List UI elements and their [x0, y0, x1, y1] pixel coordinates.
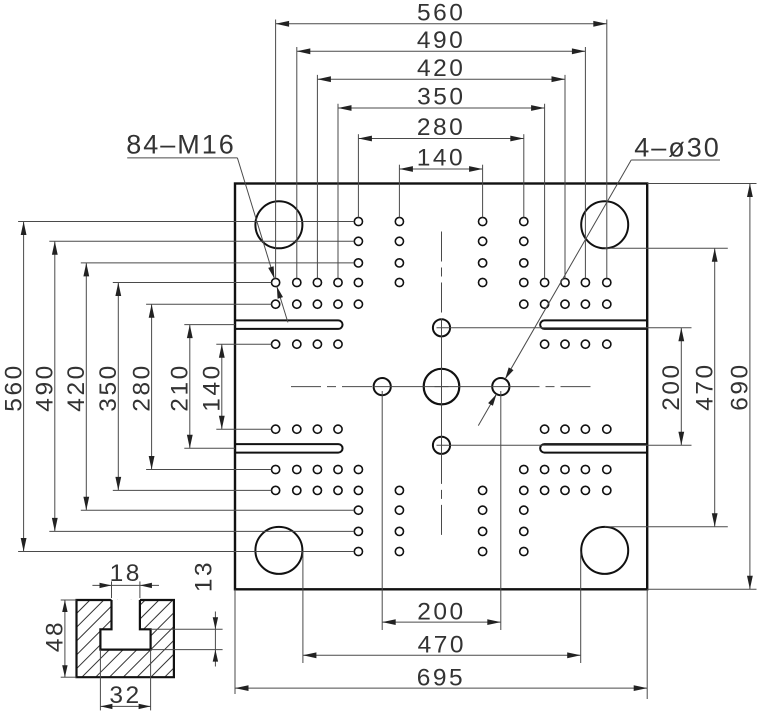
- svg-text:200: 200: [658, 362, 685, 410]
- svg-text:695: 695: [417, 665, 465, 692]
- svg-text:200: 200: [417, 599, 465, 626]
- svg-text:490: 490: [32, 363, 59, 411]
- svg-text:350: 350: [95, 363, 122, 411]
- svg-text:420: 420: [417, 55, 465, 82]
- svg-text:350: 350: [417, 84, 465, 111]
- svg-text:13: 13: [191, 560, 218, 592]
- svg-text:420: 420: [63, 363, 90, 411]
- svg-text:140: 140: [199, 363, 226, 411]
- svg-text:140: 140: [417, 145, 465, 172]
- svg-text:280: 280: [417, 114, 465, 141]
- svg-text:690: 690: [727, 362, 754, 410]
- svg-text:560: 560: [0, 363, 27, 411]
- svg-text:560: 560: [417, 0, 465, 26]
- svg-text:84–M16: 84–M16: [126, 130, 236, 160]
- svg-text:470: 470: [418, 632, 466, 659]
- svg-text:18: 18: [110, 560, 142, 587]
- svg-text:4–ø30: 4–ø30: [634, 133, 721, 163]
- svg-text:48: 48: [42, 620, 69, 652]
- svg-text:210: 210: [167, 363, 194, 411]
- svg-text:280: 280: [128, 363, 155, 411]
- svg-text:32: 32: [109, 682, 141, 709]
- svg-text:470: 470: [692, 362, 719, 410]
- svg-text:490: 490: [417, 27, 465, 54]
